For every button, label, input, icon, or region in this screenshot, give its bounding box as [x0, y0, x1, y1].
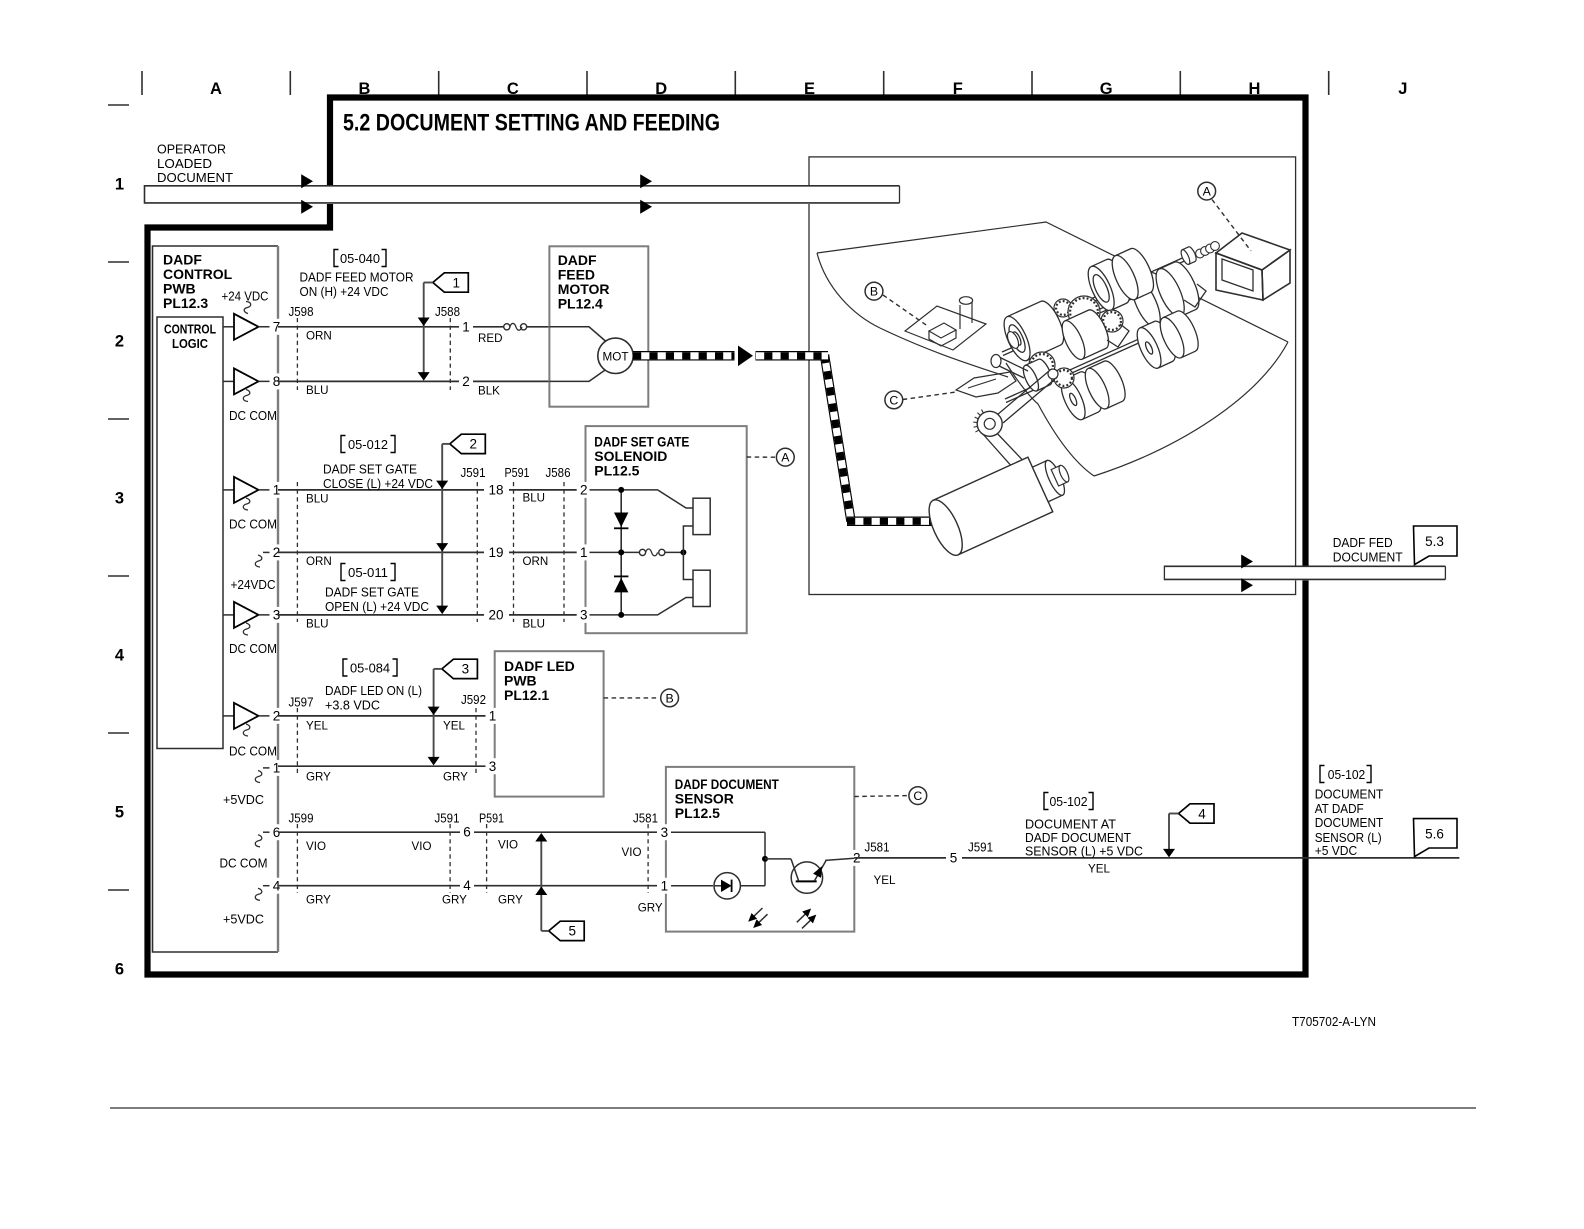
+5VDC source row pin 4: [263, 885, 278, 887]
svg-text:BLK: BLK: [478, 384, 500, 397]
svg-text:J599: J599: [289, 812, 314, 826]
connector dashed line J598: [296, 318, 298, 390]
fault code 05-040: [334, 250, 339, 267]
svg-text:P591: P591: [505, 466, 530, 480]
driver U2: [223, 380, 234, 382]
svg-text:05-011: 05-011: [348, 565, 388, 580]
svg-text:J581: J581: [633, 812, 658, 826]
svg-text:OPERATOR: OPERATOR: [157, 142, 226, 157]
svg-text:4: 4: [1198, 806, 1206, 821]
LED light arrows: [753, 908, 763, 918]
svg-text:DADF SET GATE: DADF SET GATE: [325, 585, 419, 600]
grid column ticks: [141, 71, 143, 95]
illustration: guide bracket right: [1184, 284, 1206, 307]
junction dots: [618, 487, 624, 493]
illustration: upper right roller pair (on middle shaft): [1126, 269, 1180, 331]
illustration: belt arm to motor: [982, 433, 1022, 478]
illustration: drive gear small: [1101, 310, 1123, 332]
fault code 05-011: [341, 564, 346, 581]
page border (thick): [148, 98, 1306, 975]
svg-text:DADF SET GATE: DADF SET GATE: [323, 462, 417, 477]
illustration frame: [809, 157, 1296, 595]
svg-text:4: 4: [463, 878, 471, 893]
solenoid internal wiring pin3: [590, 598, 694, 615]
svg-text:2: 2: [115, 333, 124, 351]
illustration: lower shaft: [1005, 325, 1170, 399]
svg-text:5.2 DOCUMENT SETTING AND FEEDI: 5.2 DOCUMENT SETTING AND FEEDING: [343, 110, 720, 137]
svg-text:MOT: MOT: [603, 349, 629, 363]
svg-text:GRY: GRY: [638, 902, 663, 915]
svg-text:1: 1: [115, 176, 124, 194]
svg-text:SENSOR (L) +5 VDC: SENSOR (L) +5 VDC: [1025, 843, 1143, 858]
illustration: guide bracket middle: [1107, 324, 1129, 347]
DADF set gate solenoid box: [586, 426, 747, 633]
svg-text:1: 1: [489, 709, 497, 724]
driver U4 (set gate open): [223, 614, 234, 616]
svg-text:1: 1: [273, 761, 281, 776]
svg-text:4: 4: [115, 647, 125, 665]
svg-text:DC COM: DC COM: [229, 641, 277, 656]
svg-text:1: 1: [453, 275, 461, 290]
DC COM return at driver U3: [243, 498, 250, 510]
drive belt (checkered) from motor symbol: [633, 351, 828, 361]
fault code 05-102 (center): [1044, 793, 1049, 810]
svg-text:DC COM: DC COM: [229, 408, 277, 423]
illustration: upper feed shaft: [1085, 256, 1188, 302]
svg-text:3: 3: [489, 759, 497, 774]
suppression diode CR2: [620, 552, 622, 615]
callout C (illustration): [903, 392, 956, 400]
svg-text:3: 3: [115, 490, 124, 508]
svg-text:+24VDC: +24VDC: [231, 577, 276, 592]
svg-text:05-084: 05-084: [350, 661, 390, 676]
illustration: curved document sheet: [1006, 363, 1094, 476]
flag 3 stem: [434, 668, 442, 670]
callout C (schematic): [854, 795, 908, 798]
svg-text:+3.8 VDC: +3.8 VDC: [325, 698, 380, 713]
illustration: solenoid return spring: [1196, 249, 1205, 258]
wire GRY pin1 to J592-3: [278, 765, 487, 767]
illustration: sensor actuator peg: [959, 305, 961, 329]
fuse symbol on RED wire: [504, 324, 510, 330]
illustration: lever arm upper: [997, 371, 1049, 415]
illustration: pickup roller pair: [1083, 256, 1135, 314]
svg-text:J597: J597: [289, 696, 314, 710]
DC COM row pin 6: [263, 831, 278, 833]
svg-text:+24 VDC: +24 VDC: [222, 289, 269, 304]
LED PWB pin numbers: [486, 708, 500, 724]
svg-text:OPEN (L) +24 VDC: OPEN (L) +24 VDC: [325, 599, 429, 614]
svg-text:6: 6: [115, 961, 124, 979]
solenoid pin numbers 2/1/3: [577, 482, 591, 498]
fault code 05-012: [341, 436, 346, 453]
svg-text:3: 3: [580, 608, 588, 623]
svg-text:GRY: GRY: [498, 893, 523, 906]
suppression diode CR1: [620, 490, 622, 553]
svg-text:ON (H) +24 VDC: ON (H) +24 VDC: [300, 284, 389, 299]
illustration: document sensor lever (C): [956, 372, 1016, 397]
illustration: middle shaft: [1002, 287, 1150, 352]
svg-text:05-102: 05-102: [1328, 767, 1366, 782]
illustration: solenoid assembly (A): [1216, 233, 1290, 270]
wire VIO pin6 to J581-3: [278, 831, 460, 833]
svg-text:3: 3: [462, 662, 470, 677]
svg-text:YEL: YEL: [874, 874, 896, 887]
svg-text:DC COM: DC COM: [229, 744, 277, 759]
illustration: middle roller: [1058, 307, 1114, 363]
flag 5 stem: [541, 930, 548, 932]
svg-text:+5 VDC: +5 VDC: [1315, 843, 1358, 858]
svg-text:GRY: GRY: [306, 771, 331, 784]
callout A (illustration): [1212, 200, 1251, 252]
wire BLU pin1 to J586-2 (set gate close): [278, 489, 484, 491]
control logic box: [157, 317, 223, 749]
svg-text:ORN: ORN: [306, 555, 332, 568]
svg-text:YEL: YEL: [443, 720, 465, 733]
svg-text:PL12.5: PL12.5: [594, 463, 639, 479]
svg-text:2: 2: [470, 437, 478, 452]
svg-text:BLU: BLU: [306, 618, 329, 631]
DADF feed motor box: [549, 246, 648, 406]
svg-text:BLU: BLU: [523, 492, 546, 505]
solenoid coil upper: [693, 498, 710, 534]
driver U1 (feed motor on): [223, 326, 234, 328]
illustration: sensor plate (B): [905, 306, 986, 350]
flag 1: [433, 273, 469, 292]
off-page flag 5.3: [1414, 526, 1458, 565]
svg-text:3: 3: [661, 825, 669, 840]
svg-text:VIO: VIO: [306, 840, 326, 853]
svg-text:GRY: GRY: [442, 893, 467, 906]
svg-text:20: 20: [488, 607, 503, 622]
DADF document sensor box: [666, 767, 854, 932]
DADF LED PWB box: [495, 651, 604, 796]
motor internal wiring: [549, 327, 606, 342]
svg-text:DOCUMENT: DOCUMENT: [1315, 815, 1384, 830]
solenoid coil lower: [693, 570, 710, 606]
connector dashed line J588: [449, 318, 451, 390]
svg-text:A: A: [210, 80, 222, 98]
svg-text:05-102: 05-102: [1050, 794, 1088, 809]
svg-text:DC COM: DC COM: [229, 517, 277, 532]
phototransistor light arrows: [797, 913, 807, 923]
connector dashed lines group4: [296, 824, 298, 893]
DC COM return at driver U4: [243, 623, 250, 635]
wire YEL pin2 to J592-1 (LED on): [278, 715, 487, 717]
wire YEL J581-2 to 5.6 flag: [854, 857, 946, 859]
svg-text:VIO: VIO: [622, 846, 642, 859]
svg-text:BLU: BLU: [306, 384, 329, 397]
wire BLU pin8 to J588-2 (BLK): [278, 380, 459, 382]
svg-text:YEL: YEL: [1088, 863, 1110, 876]
+5VDC source row pin 1: [263, 767, 278, 769]
svg-text:1: 1: [661, 879, 669, 894]
sensor internal wiring: [671, 831, 765, 833]
svg-text:2: 2: [580, 483, 588, 498]
svg-text:18: 18: [488, 482, 503, 497]
svg-text:DADF LED ON (L): DADF LED ON (L): [325, 683, 422, 698]
+24VDC source row pin 2: [263, 551, 278, 553]
sensor pin numbers: [657, 824, 671, 840]
svg-text:05-012: 05-012: [348, 437, 388, 452]
svg-text:J591: J591: [968, 841, 993, 855]
svg-text:2: 2: [462, 374, 470, 389]
svg-text:P591: P591: [479, 812, 504, 826]
svg-text:PL12.1: PL12.1: [504, 687, 549, 703]
solenoid internal wiring pin1 with fuse: [590, 551, 640, 553]
callout A (schematic): [747, 456, 775, 458]
svg-text:CLOSE (L) +24 VDC: CLOSE (L) +24 VDC: [323, 476, 433, 491]
illustration: lower pinion: [1054, 368, 1074, 388]
sensor LED D1: [714, 873, 740, 899]
DC COM return at driver U5: [243, 724, 250, 736]
flag 4 stem: [1169, 813, 1179, 815]
svg-text:GRY: GRY: [306, 893, 331, 906]
DADF control PWB connector edge J598/J597/J599: [277, 246, 279, 952]
bottom rule: [110, 1107, 1476, 1109]
wire ORN pin2 to J586-1: [278, 551, 484, 553]
fault code 05-084: [343, 659, 348, 676]
belt direction arrow: [735, 344, 756, 368]
fault code 05-102 (right margin): [1320, 766, 1325, 783]
solenoid internal wiring pin2: [590, 490, 694, 508]
connector dashed lines group2: [296, 482, 298, 622]
svg-text:J591: J591: [435, 812, 460, 826]
illustration: lower roller pair: [1056, 369, 1106, 423]
svg-text:YEL: YEL: [306, 720, 328, 733]
document path bar (DADF fed document): [1164, 566, 1445, 581]
svg-text:AT DADF: AT DADF: [1315, 801, 1364, 816]
svg-text:+5VDC: +5VDC: [223, 912, 264, 927]
illustration: lower right roller pair with hub: [1132, 318, 1180, 371]
document path arrows: [301, 174, 313, 188]
flag 3: [442, 659, 478, 678]
svg-text:05-040: 05-040: [340, 251, 380, 266]
driver U5 (LED on): [223, 715, 234, 717]
flag 5: [549, 921, 585, 940]
svg-text:DOCUMENT: DOCUMENT: [157, 170, 233, 185]
svg-text:J581: J581: [865, 840, 890, 854]
svg-text:T705702-A-LYN: T705702-A-LYN: [1292, 1015, 1376, 1029]
svg-text:VIO: VIO: [498, 839, 518, 852]
svg-text:6: 6: [463, 825, 471, 840]
svg-text:J598: J598: [289, 305, 314, 319]
illustration: takeaway roller with hub: [999, 298, 1069, 365]
svg-text:5: 5: [568, 924, 576, 939]
callout B (schematic): [604, 697, 659, 699]
svg-text:DOCUMENT: DOCUMENT: [1333, 550, 1403, 565]
svg-text:GRY: GRY: [443, 771, 468, 784]
svg-text:J586: J586: [546, 466, 571, 480]
svg-text:BLU: BLU: [523, 618, 546, 631]
flag 4: [1179, 804, 1215, 823]
svg-text:5: 5: [115, 804, 124, 822]
illustration: shaft collar near solenoid: [1179, 246, 1198, 266]
illustration: small collar roller: [1020, 357, 1055, 393]
svg-text:J588: J588: [435, 305, 460, 319]
svg-text:J592: J592: [461, 693, 486, 707]
svg-text:A: A: [1203, 185, 1212, 199]
svg-text:DADF FED: DADF FED: [1333, 535, 1393, 550]
callout B (illustration): [883, 295, 929, 327]
illustration: small pinion gear: [1054, 299, 1072, 317]
illustration: motor cylinder: [922, 445, 1079, 560]
flag 2: [450, 434, 486, 453]
connector dashed lines group3: [296, 708, 298, 773]
svg-text:1: 1: [462, 319, 470, 334]
svg-text:PL12.5: PL12.5: [675, 805, 720, 821]
svg-text:C: C: [913, 789, 922, 803]
svg-text:A: A: [781, 451, 790, 465]
svg-text:BLU: BLU: [306, 493, 329, 506]
svg-text:DADF FEED MOTOR: DADF FEED MOTOR: [300, 270, 414, 285]
svg-text:B: B: [870, 285, 878, 299]
motor symbol MOT: [598, 338, 633, 373]
illustration: pulley: [977, 411, 1002, 436]
grid row ticks: [108, 104, 129, 106]
flag 2 stem: [442, 443, 450, 445]
svg-text:1: 1: [580, 545, 588, 560]
svg-text:B: B: [665, 691, 673, 705]
document path arrows (right): [1241, 555, 1253, 569]
svg-text:LOADED: LOADED: [157, 156, 212, 171]
off-page flag 5.6: [1414, 819, 1458, 857]
illustration: drive gear large: [1068, 296, 1100, 328]
drive belt (checkered) diagonal segment: [825, 355, 852, 521]
svg-text:VIO: VIO: [412, 840, 432, 853]
wire GRY pin4 to J581-1: [278, 885, 460, 887]
svg-text:5.3: 5.3: [1425, 534, 1444, 549]
svg-text:J591: J591: [461, 466, 486, 480]
svg-text:5: 5: [950, 850, 958, 865]
+24 VDC source symbol at driver U1: [244, 302, 251, 314]
svg-text:LOGIC: LOGIC: [172, 336, 209, 351]
illustration: pickup arm link: [999, 357, 1028, 371]
svg-text:ORN: ORN: [306, 329, 332, 342]
svg-text:CONTROL: CONTROL: [164, 322, 216, 337]
driver U3 (set gate close): [223, 489, 234, 491]
svg-text:DC COM: DC COM: [220, 856, 268, 871]
wire ORN pin7 to J588-1 (RED): [278, 326, 459, 328]
DC COM return at driver U2: [243, 390, 250, 402]
DADF control PWB box: [153, 246, 279, 952]
sensor phototransistor Q1: [791, 862, 822, 893]
svg-text:DOCUMENT: DOCUMENT: [1315, 787, 1384, 802]
svg-text:+5VDC: +5VDC: [223, 792, 264, 807]
flag 1 stem: [424, 282, 433, 284]
wire BLU pin3 to J586-3 (set gate open): [278, 614, 484, 616]
svg-text:RED: RED: [478, 332, 502, 345]
drive belt (checkered) lower segment to motor: [847, 517, 938, 527]
svg-text:PL12.3: PL12.3: [163, 295, 208, 311]
illustration: lower gear: [1029, 352, 1055, 378]
PWB pin numbers: [270, 319, 284, 335]
svg-text:J: J: [1398, 80, 1407, 98]
svg-text:ORN: ORN: [523, 555, 549, 568]
svg-text:19: 19: [488, 545, 503, 560]
svg-text:PL12.4: PL12.4: [558, 296, 603, 312]
document path bar (operator loaded): [145, 185, 901, 204]
illustration: paper tray plate edges: [817, 222, 1288, 342]
svg-text:5.6: 5.6: [1425, 827, 1444, 842]
svg-text:C: C: [889, 393, 898, 407]
